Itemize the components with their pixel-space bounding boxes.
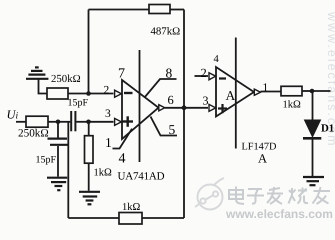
resistor R1 487kΩ [149, 5, 170, 14]
op2 minus sign [219, 77, 226, 79]
svg-text:487kΩ: 487kΩ [151, 26, 181, 38]
resistor R5 1kΩ (pin3 to ground) [85, 136, 94, 164]
svg-text:4: 4 [119, 152, 126, 167]
svg-text:8: 8 [166, 66, 173, 81]
wire: R3 to node N1 [48, 121, 58, 123]
svg-text:UA741AD: UA741AD [118, 171, 165, 183]
ground (top-left) [26, 67, 48, 78]
diode D1 cathode lead [312, 140, 314, 177]
wire: N1 to capacitor C1 [58, 121, 70, 123]
svg-text:1kΩ: 1kΩ [94, 168, 113, 179]
wire: feedback right vertical [183, 10, 185, 219]
capacitor C2 15pF plates [48, 139, 69, 145]
svg-text:15pF: 15pF [68, 98, 89, 109]
watermark ideograph 发 (vector) [267, 187, 283, 204]
resistor R3 250kΩ (input) [26, 116, 48, 127]
op1 supply line pins 7/4 [139, 50, 141, 162]
wire: top feedback horizontal (left of R1) [89, 9, 150, 11]
svg-text:250kΩ: 250kΩ [51, 73, 81, 85]
wire: C1 to node N2 [76, 121, 88, 123]
wire: feedback left vertical [88, 10, 90, 94]
op2 input arrow pin3 [209, 104, 216, 111]
diode D1 body [305, 120, 321, 137]
wire: Ui to R3 [16, 121, 26, 123]
svg-text:A: A [226, 88, 236, 103]
diode D1 cathode bar [303, 137, 321, 140]
wire: pin 5 stub [151, 117, 178, 136]
wire: R5 to ground [88, 163, 90, 191]
op1 input arrow pin2 [115, 90, 122, 97]
wire: op1 output to output node [165, 107, 184, 109]
svg-text:1kΩ: 1kΩ [283, 100, 302, 111]
svg-text:3: 3 [203, 93, 209, 107]
capacitor C2 bottom lead [57, 146, 59, 177]
ground (below C2) [47, 178, 67, 191]
wire: pin 8 stub [145, 79, 177, 98]
resistor R2 250kΩ (upper) [47, 88, 68, 99]
wire: bottom feedback (left of R6) [68, 217, 119, 219]
svg-text:6: 6 [168, 93, 174, 107]
capacitor C1 15pF (series) [71, 111, 75, 131]
op-amp U1 UA741AD triangle [122, 80, 159, 139]
wire: top ground to R2 [39, 80, 48, 94]
op2 plus sign [218, 104, 227, 113]
wire: op2 supply line pin 4 [235, 38, 237, 149]
wire: node to op1 pin 2 [89, 93, 114, 95]
svg-text:250kΩ: 250kΩ [18, 128, 49, 140]
wire: output node to op2 pin3 [184, 107, 208, 109]
op1 non-inverting plus sign [123, 116, 134, 127]
junction: output node [182, 105, 187, 110]
wire: bottom feedback (right of R6) [142, 217, 184, 219]
svg-text:2: 2 [104, 84, 110, 96]
wire: N2 down to R5 [88, 122, 90, 136]
junction node N2 [86, 120, 91, 125]
wire: top feedback horizontal (right of R1) [170, 9, 184, 11]
svg-text:15pF: 15pF [36, 155, 57, 166]
svg-text:7: 7 [118, 67, 125, 82]
watermark logo circle (elecfans ball) [195, 178, 224, 210]
capacitor C2 15pF (shunt): top lead [57, 122, 59, 138]
op1 input arrow pin3 [115, 118, 122, 125]
svg-text:4: 4 [214, 54, 220, 65]
wire: op2 pin2 stub [195, 75, 209, 77]
resistor R6 1kΩ (bottom feedback) [119, 213, 142, 225]
wire: output stub to edge [312, 90, 331, 92]
svg-text:D1: D1 [321, 123, 334, 135]
svg-text:A: A [258, 152, 267, 166]
ground (below R5) [79, 192, 100, 205]
watermark ideograph 电 (vector) [229, 187, 244, 205]
diode D1 anode lead [312, 91, 314, 120]
op-amp U2 LF147D triangle [216, 67, 254, 117]
ground (below D1) [303, 177, 324, 185]
svg-text:5: 5 [169, 122, 176, 137]
watermark ideograph 友 (vector) [313, 187, 331, 204]
svg-text:www.elecfans.com: www.elecfans.com [225, 207, 333, 221]
svg-text:2: 2 [201, 66, 207, 80]
svg-text:1kΩ: 1kΩ [122, 202, 141, 213]
watermark ideograph 烧 (vector) [289, 188, 309, 204]
wire: R7 to diode node [302, 90, 312, 92]
op1 output arrow [159, 105, 165, 111]
wire: feedback tap vertical (node to bottom 1k loop) [67, 122, 69, 218]
op2 input arrow pin2 [209, 73, 216, 80]
wire: R2 to inverting node [68, 93, 89, 95]
junction: diode node [310, 89, 315, 94]
junction: inverting input node [86, 91, 91, 96]
op1 inverting minus sign [124, 92, 133, 94]
wire: N2 to op1 pin 3 [89, 121, 114, 123]
wire: op2 output to R7 [261, 91, 282, 93]
svg-text:3: 3 [105, 108, 111, 120]
watermark ideograph 子 (vector) [247, 189, 264, 204]
junction node N1 [56, 120, 61, 125]
wire: pin 1 stub [113, 129, 133, 149]
op2 output arrow [254, 89, 260, 95]
svg-text:1: 1 [105, 135, 112, 150]
resistor R7 1kΩ (output) [281, 86, 302, 96]
